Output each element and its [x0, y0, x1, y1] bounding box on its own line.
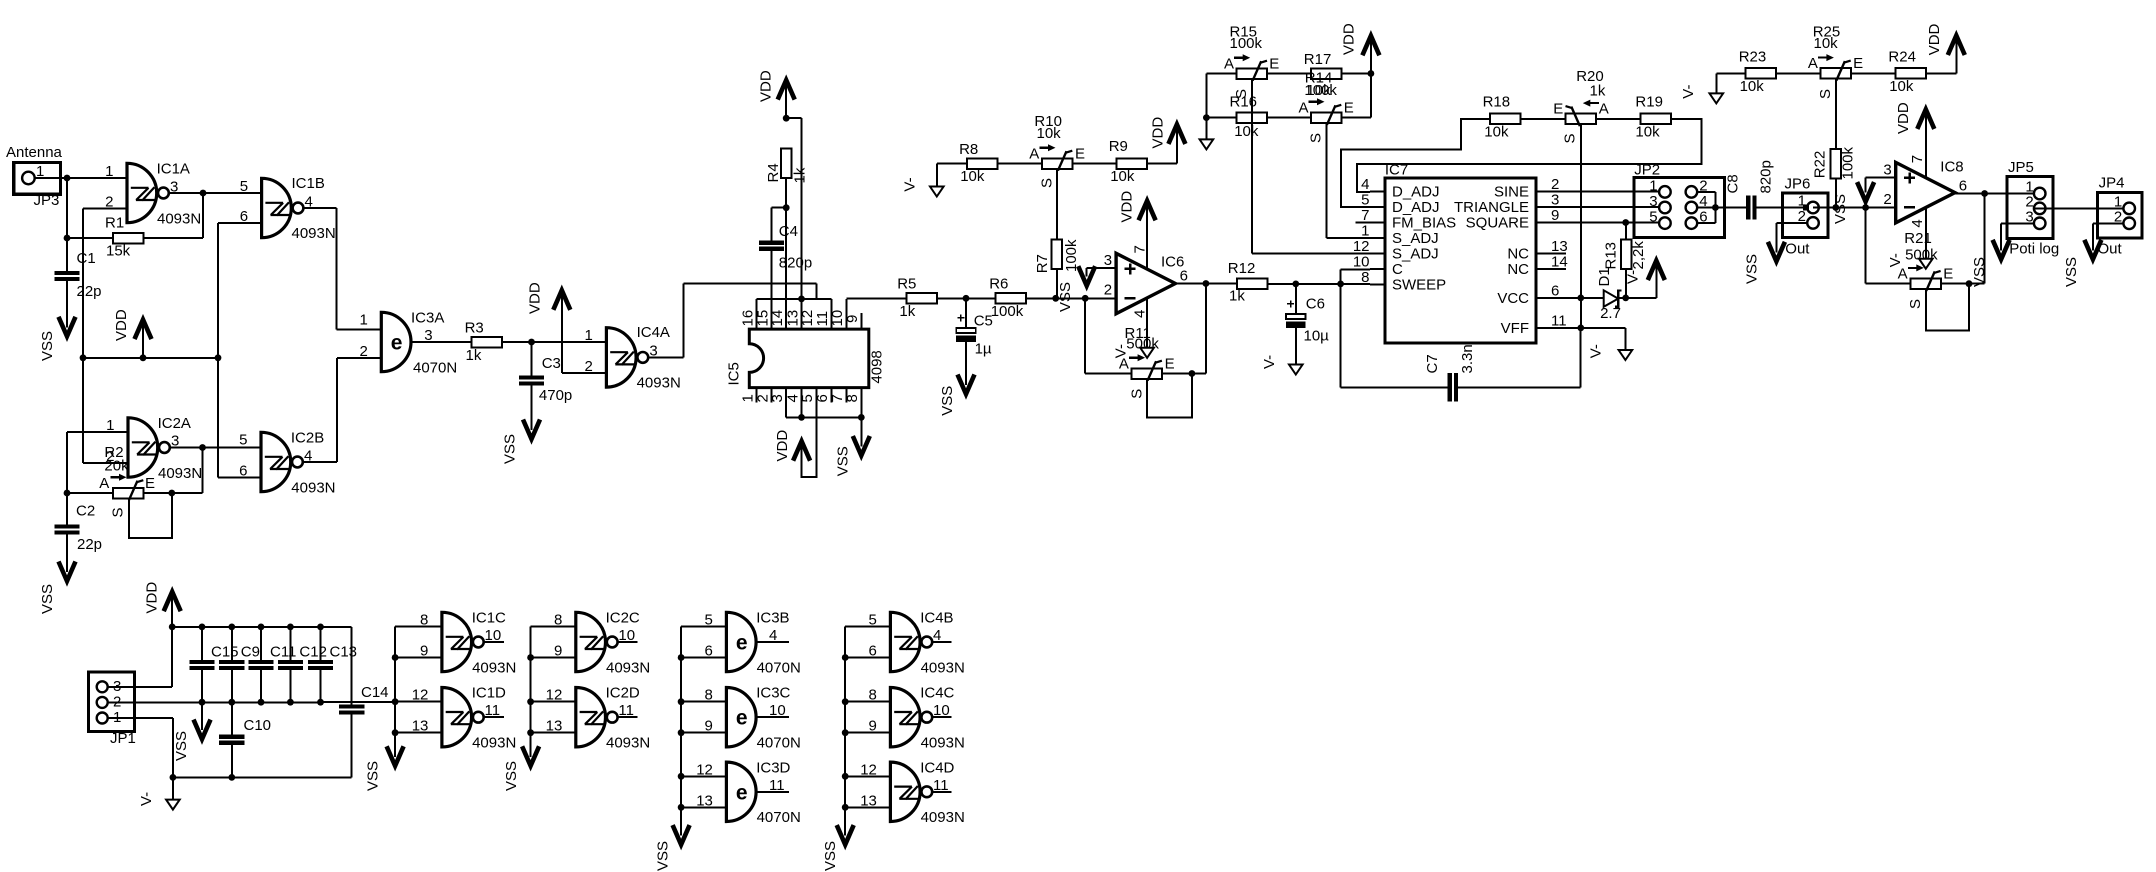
wire IC5 pin10 stub — [846, 298, 906, 329]
svg-text:VDD: VDD — [774, 430, 791, 462]
svg-text:5: 5 — [239, 432, 247, 449]
wire C3 bottom — [531, 386, 533, 428]
zener diode D1 — [1596, 267, 1622, 322]
capacitor C8 — [1725, 160, 1775, 219]
svg-text:4093N: 4093N — [157, 210, 201, 227]
wire VSS cap rail — [108, 699, 395, 706]
wire input rail column IC2C.. — [527, 627, 576, 756]
svg-text:R21: R21 — [1904, 230, 1932, 247]
svg-text:VDD: VDD — [1119, 191, 1136, 223]
svg-text:VSS: VSS — [1057, 282, 1074, 312]
nand-gate IC1B — [240, 175, 336, 242]
wire JP4 pin2 to VSS — [2093, 223, 2124, 249]
svg-text:R4: R4 — [765, 163, 782, 182]
wire IC5 pin14 lead — [785, 177, 787, 329]
capacitor C2 — [54, 503, 102, 554]
svg-text:R3: R3 — [465, 320, 484, 337]
svg-text:IC3B: IC3B — [756, 610, 789, 627]
wire IC1C output stub — [484, 641, 504, 643]
svg-text:820p: 820p — [779, 255, 812, 272]
svg-text:IC2A: IC2A — [158, 415, 191, 432]
wire C7 right — [1456, 328, 1580, 388]
svg-text:S: S — [1308, 133, 1325, 143]
svg-text:10k: 10k — [1306, 82, 1331, 99]
resistor R13 — [1602, 239, 1647, 269]
wire R2 S loop — [129, 493, 172, 538]
resistor R7 — [1034, 239, 1080, 273]
wire R15 E to R14 — [1267, 73, 1311, 75]
supply VDD at JP1 — [143, 582, 180, 627]
wire R17 S to IC7 pin1 — [1327, 123, 1370, 238]
supply VDD above R4 — [758, 70, 795, 120]
svg-text:VSS: VSS — [822, 841, 839, 871]
svg-text:7: 7 — [1131, 245, 1148, 253]
wire R16 node — [1203, 114, 1237, 121]
wire R2 A-side — [64, 490, 113, 497]
wire C2 bottom — [66, 535, 68, 570]
svg-text:S: S — [1907, 299, 1924, 309]
wire IC5 bottom stubs — [757, 388, 847, 403]
ground VSS at IC6 pin3 — [1057, 266, 1095, 312]
svg-text:13: 13 — [546, 718, 563, 735]
svg-text:NC: NC — [1507, 246, 1529, 263]
svg-text:12: 12 — [546, 687, 563, 704]
svg-text:500k: 500k — [1905, 247, 1938, 264]
wire IC7 SQUARE to JP2 — [1551, 219, 1659, 226]
svg-text:1µ: 1µ — [975, 340, 992, 357]
wire JP2 right column tie — [1697, 192, 1750, 223]
nand-gate IC4B — [869, 610, 965, 677]
wire IC4A output — [648, 283, 817, 357]
wire IC5 pin15 lead — [771, 249, 773, 329]
svg-text:R23: R23 — [1739, 49, 1767, 66]
svg-text:VDD: VDD — [758, 70, 775, 102]
svg-text:E: E — [1553, 101, 1563, 118]
svg-text:S_ADJ: S_ADJ — [1392, 246, 1439, 263]
svg-text:S_ADJ: S_ADJ — [1392, 230, 1439, 247]
wire IC2D output stub — [618, 716, 638, 718]
nand-gate IC2D — [546, 685, 651, 752]
svg-text:IC1D: IC1D — [472, 685, 506, 702]
svg-text:C: C — [1392, 261, 1403, 278]
wire IC4C output stub — [932, 716, 951, 718]
IC7 pin name labels — [1392, 184, 1529, 337]
svg-text:e: e — [391, 332, 403, 355]
svg-text:A: A — [1298, 99, 1308, 116]
capacitor C11 — [248, 644, 296, 668]
svg-text:IC1B: IC1B — [292, 175, 325, 192]
wire IC2B pin6 — [218, 358, 261, 478]
wire IC5 pin5 to VDD — [802, 388, 817, 478]
wire IC4D output stub — [932, 791, 951, 793]
svg-text:R12: R12 — [1228, 260, 1256, 277]
wire IC2A output — [169, 444, 261, 493]
wire IC5 pin9 stub — [860, 313, 862, 329]
svg-text:R18: R18 — [1483, 94, 1511, 111]
svg-text:6: 6 — [705, 643, 713, 660]
wire R20 S down to VCC/VFF — [1580, 125, 1582, 328]
svg-text:4: 4 — [1909, 219, 1926, 227]
supply V- at IC8 pin4 — [1887, 253, 1933, 269]
svg-text:V-: V- — [1588, 344, 1605, 358]
capacitor C13 — [308, 644, 357, 668]
wire IC4A pin2 — [562, 372, 607, 374]
wire R13 bottom — [1625, 269, 1627, 298]
svg-text:9: 9 — [1551, 207, 1559, 224]
svg-text:4093N: 4093N — [291, 479, 335, 496]
nand-gate IC2B — [239, 430, 335, 497]
svg-text:C15: C15 — [211, 644, 239, 661]
svg-text:R24: R24 — [1888, 49, 1916, 66]
svg-text:4070N: 4070N — [413, 360, 457, 377]
svg-text:S: S — [1562, 133, 1579, 143]
svg-text:S: S — [1128, 389, 1145, 399]
svg-text:VCC: VCC — [1497, 290, 1529, 307]
wire C3 top — [531, 342, 533, 378]
svg-text:6: 6 — [1959, 178, 1967, 195]
wire R12 to IC7 pin8 — [1268, 281, 1370, 288]
svg-text:4093N: 4093N — [921, 809, 965, 826]
nand-gate IC4A — [585, 324, 681, 391]
svg-text:13: 13 — [412, 718, 429, 735]
ground VSS below C15 — [173, 702, 211, 761]
opamp IC8 — [1883, 155, 1967, 228]
svg-text:22p: 22p — [77, 536, 102, 553]
svg-text:S: S — [1817, 89, 1834, 99]
wire input rail column IC3B.. — [678, 627, 727, 835]
svg-text:R6: R6 — [989, 276, 1008, 293]
wire R14 right VDD node — [1342, 70, 1375, 77]
svg-text:VSS: VSS — [1971, 257, 1988, 287]
supply V- at C6 — [1261, 355, 1303, 375]
wire IC1B pin6 — [218, 223, 262, 358]
svg-text:C10: C10 — [244, 717, 272, 734]
IC7 pin number labels — [1353, 176, 1568, 329]
resistor R1 — [105, 215, 144, 260]
ground VSS at C2 — [39, 562, 76, 615]
svg-text:VSS: VSS — [364, 761, 381, 791]
svg-text:C9: C9 — [241, 644, 260, 661]
svg-text:1: 1 — [105, 163, 113, 180]
nand-gate IC1A — [105, 161, 201, 228]
nand-gate IC1D — [412, 685, 517, 752]
supply V- at VFF — [1588, 344, 1633, 360]
supply V- at JP1 — [138, 777, 180, 809]
svg-text:12: 12 — [860, 761, 877, 778]
wire R23 to R25 — [1776, 72, 1820, 74]
capacitor C5 polarized — [956, 313, 993, 358]
resistor R4 — [765, 149, 809, 184]
svg-text:R5: R5 — [897, 276, 916, 293]
svg-text:C14: C14 — [361, 684, 389, 701]
wire IC6 pin4 to V- — [1146, 299, 1148, 348]
svg-text:V-: V- — [1261, 355, 1278, 369]
svg-text:10k: 10k — [960, 168, 985, 185]
svg-text:VSS: VSS — [1832, 194, 1849, 224]
svg-text:R17: R17 — [1304, 51, 1332, 68]
svg-text:5: 5 — [705, 612, 713, 629]
wire IC1A pin2 to VDD rail — [83, 209, 127, 358]
svg-text:10: 10 — [1353, 254, 1370, 271]
wire R2 E-side — [144, 490, 203, 497]
svg-text:IC3D: IC3D — [756, 759, 790, 776]
wire IC4B output stub — [932, 641, 951, 643]
wire IC6 output — [1175, 280, 1237, 287]
svg-text:V-: V- — [138, 792, 155, 806]
svg-text:IC1A: IC1A — [157, 161, 190, 178]
wire R8 left to V- — [937, 164, 967, 188]
wire IC2B output — [302, 358, 381, 462]
wire IC8 feedback down — [1866, 208, 1911, 284]
svg-text:VSS: VSS — [1744, 254, 1761, 284]
svg-text:E: E — [1165, 355, 1175, 372]
svg-text:6: 6 — [869, 643, 877, 660]
svg-text:R1: R1 — [105, 215, 124, 232]
svg-text:e: e — [736, 632, 748, 655]
svg-text:TRIANGLE: TRIANGLE — [1454, 199, 1529, 216]
svg-text:C6: C6 — [1306, 296, 1325, 313]
wire IC3C output stub — [758, 716, 789, 718]
wire IC8 pin4 to V- — [1925, 208, 1927, 259]
ground VSS at IC8 pin3 — [1832, 182, 1874, 224]
svg-text:8: 8 — [1361, 269, 1369, 286]
wire R25 S to R22 — [1835, 79, 1837, 149]
svg-text:12: 12 — [696, 761, 713, 778]
resistor R5 — [897, 276, 937, 321]
supply arrow below R16 node — [1200, 118, 1214, 150]
svg-text:IC4A: IC4A — [637, 324, 670, 341]
svg-text:A: A — [1808, 55, 1818, 72]
svg-text:4093N: 4093N — [606, 735, 650, 752]
svg-text:VDD: VDD — [526, 282, 543, 314]
capacitor C15 — [189, 644, 238, 668]
svg-text:IC1C: IC1C — [472, 610, 506, 627]
wire IC6 pin3 — [1087, 267, 1116, 269]
svg-text:5: 5 — [869, 612, 877, 629]
svg-text:NC: NC — [1507, 261, 1529, 278]
svg-text:1k: 1k — [466, 347, 482, 364]
supply V- at R8 — [902, 177, 944, 196]
wire IC1A output net — [168, 190, 261, 238]
svg-text:VDD: VDD — [143, 582, 160, 614]
svg-text:2: 2 — [1104, 282, 1112, 299]
svg-text:VSS: VSS — [502, 434, 519, 464]
capacitor C3 — [519, 355, 572, 404]
wire R4 top node — [783, 115, 802, 122]
svg-text:1k: 1k — [792, 167, 809, 183]
supply VDD at R24 — [1926, 23, 1965, 55]
wire JP5 pin3 to VSS — [2001, 223, 2034, 249]
trimmer R11 — [1119, 325, 1175, 399]
resistor R18 — [1483, 94, 1521, 141]
svg-text:VFF: VFF — [1501, 320, 1529, 337]
svg-text:IC3A: IC3A — [411, 310, 444, 327]
svg-text:IC2C: IC2C — [606, 610, 640, 627]
svg-text:JP6: JP6 — [1785, 175, 1811, 192]
opamp IC6 — [1104, 245, 1188, 318]
svg-text:VDD: VDD — [1149, 117, 1166, 149]
svg-text:E: E — [1943, 266, 1953, 283]
wire V- rail — [170, 774, 352, 781]
svg-text:4093N: 4093N — [472, 659, 516, 676]
svg-text:D1: D1 — [1596, 267, 1613, 286]
svg-text:10k: 10k — [1110, 168, 1135, 185]
svg-text:1k: 1k — [1590, 83, 1606, 100]
svg-text:C12: C12 — [299, 644, 327, 661]
resistor R9 — [1109, 138, 1147, 185]
IC IC7 body — [1385, 162, 1536, 343]
svg-text:11: 11 — [1551, 312, 1567, 329]
resistor R14 / R17 labels overlapped — [1304, 51, 1342, 99]
capacitor C6 polarized — [1286, 296, 1329, 345]
wire R21 S loop — [1926, 284, 1969, 331]
wire R24 right to VDD — [1926, 39, 1957, 73]
wire R13 top — [1625, 223, 1627, 240]
svg-text:7: 7 — [1909, 155, 1926, 163]
svg-text:2: 2 — [359, 343, 367, 360]
svg-text:JP1: JP1 — [110, 730, 136, 747]
svg-text:4093N: 4093N — [472, 735, 516, 752]
svg-text:3.3n: 3.3n — [1459, 344, 1476, 373]
wire JP1 pin1 to V- rail — [108, 718, 173, 777]
svg-text:4070N: 4070N — [757, 809, 801, 826]
svg-text:3: 3 — [1883, 162, 1891, 179]
svg-text:10k: 10k — [1889, 78, 1914, 95]
svg-text:E: E — [145, 475, 155, 492]
svg-text:2,2k: 2,2k — [1630, 241, 1647, 270]
wire R25 to R24 — [1851, 72, 1895, 74]
supply VDD rail symbol — [113, 309, 152, 358]
svg-text:3: 3 — [1649, 193, 1657, 210]
svg-text:8: 8 — [705, 687, 713, 704]
svg-text:E: E — [1269, 55, 1279, 72]
wire IC7 VFF net — [1551, 325, 1625, 351]
svg-text:C5: C5 — [974, 313, 993, 330]
connector JP6 — [1783, 175, 1829, 257]
svg-text:13: 13 — [696, 792, 713, 809]
svg-text:4093N: 4093N — [292, 225, 336, 242]
wire R4 bottom node — [772, 178, 790, 243]
svg-text:C11: C11 — [270, 644, 296, 661]
svg-text:Out: Out — [1785, 240, 1810, 257]
wire C11 leads — [260, 627, 262, 702]
svg-text:4093N: 4093N — [921, 735, 965, 752]
svg-text:22p: 22p — [77, 283, 102, 300]
wire R18 to R20 — [1521, 118, 1566, 120]
wire R1 left — [64, 235, 113, 242]
svg-text:VDD: VDD — [1895, 102, 1912, 134]
svg-text:10k: 10k — [1037, 125, 1062, 142]
svg-text:V-: V- — [902, 177, 919, 191]
svg-text:SWEEP: SWEEP — [1392, 277, 1446, 294]
IC7 pin stubs — [1356, 192, 1566, 328]
resistor R8 — [959, 141, 997, 185]
wire IC7 pin8-C7 branch — [1341, 284, 1450, 388]
connector JP4 — [2098, 174, 2143, 257]
svg-text:IC4D: IC4D — [920, 759, 954, 776]
svg-text:1: 1 — [359, 312, 367, 329]
supply VDD below IC5 — [774, 430, 810, 462]
wire C9 leads — [231, 627, 233, 702]
svg-text:VSS: VSS — [654, 841, 671, 871]
wire IC3D output stub — [758, 791, 789, 793]
svg-text:8: 8 — [420, 612, 428, 629]
wire input rail column IC1C.. — [392, 627, 442, 756]
wire C10 leads — [231, 702, 233, 777]
ground VSS column IC3B — [654, 825, 689, 871]
svg-text:R13: R13 — [1602, 242, 1619, 270]
connector JP2 — [1634, 162, 1725, 238]
wire IC6 pin7 to VDD — [1146, 203, 1148, 268]
svg-text:14: 14 — [1551, 254, 1568, 271]
svg-text:JP5: JP5 — [2008, 159, 2034, 176]
connector JP5 — [2007, 159, 2059, 257]
resistor R24 — [1888, 49, 1925, 95]
wire IC3A pin1 — [337, 329, 382, 331]
svg-text:20k: 20k — [104, 458, 129, 475]
trimmer R20 mirrored — [1553, 68, 1608, 143]
svg-text:4093N: 4093N — [637, 374, 681, 391]
wire R9 right to VDD — [1147, 127, 1177, 164]
wire IC7 VCC net — [1551, 273, 1656, 301]
supply VDD at IC8 pin7 — [1895, 102, 1934, 134]
wire R15 S to IC7 pin12 — [1252, 79, 1370, 254]
resistor R12 — [1228, 260, 1268, 305]
resistor R3 — [465, 320, 502, 365]
svg-text:9: 9 — [420, 643, 428, 660]
svg-text:1k: 1k — [899, 303, 915, 320]
svg-text:12: 12 — [1353, 238, 1370, 255]
svg-text:4093N: 4093N — [158, 465, 202, 482]
wire C15 leads — [201, 627, 203, 702]
svg-text:C2: C2 — [76, 503, 95, 520]
resistor R6 — [989, 276, 1026, 321]
svg-text:E: E — [1344, 99, 1354, 116]
svg-text:8: 8 — [554, 612, 562, 629]
wire IC8 output — [1955, 190, 2034, 197]
svg-text:470p: 470p — [539, 387, 572, 404]
svg-text:7: 7 — [1361, 207, 1369, 224]
ground VSS at JP6 — [1744, 242, 1785, 284]
wire R19 to IC7 pin4 — [1357, 119, 1701, 192]
ground VSS column IC1C — [364, 746, 403, 791]
supply VDD at R9 — [1149, 117, 1185, 149]
svg-text:9: 9 — [554, 643, 562, 660]
resistor R22 — [1812, 146, 1857, 179]
svg-text:C13: C13 — [330, 644, 358, 661]
svg-text:C3: C3 — [542, 355, 561, 372]
xor-gate IC3C — [705, 685, 801, 752]
svg-text:15k: 15k — [106, 243, 131, 260]
svg-text:4070N: 4070N — [757, 735, 801, 752]
wire R7 bottom — [1056, 269, 1058, 299]
svg-text:Poti log: Poti log — [2009, 240, 2059, 257]
svg-text:4098: 4098 — [869, 350, 886, 383]
svg-text:13: 13 — [1551, 238, 1568, 255]
connector JP1 — [89, 672, 136, 747]
ground VSS at C3 — [502, 420, 540, 465]
xor-gate IC3A — [359, 310, 457, 377]
wire C2 top — [66, 493, 68, 525]
svg-text:6: 6 — [1551, 282, 1559, 299]
wire R15 A to R16 node — [1206, 74, 1236, 118]
svg-text:10k: 10k — [1484, 124, 1509, 141]
wire VDD cap rail — [169, 624, 352, 631]
svg-text:9: 9 — [705, 718, 713, 735]
wire R10 to R9 — [1073, 163, 1117, 165]
svg-text:1: 1 — [1361, 223, 1369, 240]
svg-text:R9: R9 — [1109, 138, 1128, 155]
